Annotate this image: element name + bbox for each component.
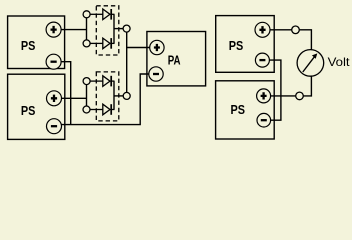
diode D1 (block 1 top) xyxy=(90,9,115,20)
svg-text:PS: PS xyxy=(231,102,246,117)
meter needle arrowhead xyxy=(312,53,317,58)
terminal PS4 + xyxy=(257,89,271,103)
svg-text:PS: PS xyxy=(21,103,36,118)
terminal PS2 - xyxy=(47,119,62,134)
power supply PS2 box xyxy=(8,74,65,139)
wire cathode join block 2 xyxy=(113,81,115,110)
terminal PA + xyxy=(150,40,164,54)
power supply PS3 box xyxy=(216,16,275,73)
wire OR bus vertical between output nodes xyxy=(126,29,128,96)
diode D2 (block 1 bottom) xyxy=(90,38,115,49)
node: block 1 output xyxy=(123,25,130,32)
wire cathode join block 1 xyxy=(113,14,115,43)
wire PS4+ to voltmeter bottom xyxy=(271,76,312,96)
power supply PS4 box xyxy=(216,81,275,139)
node: block 1 input B xyxy=(83,40,90,47)
node: block 2 output xyxy=(123,92,130,99)
svg-text:PA: PA xyxy=(168,53,181,68)
wire block 2 output to OR node xyxy=(114,95,127,97)
wire input chain block 1 (vertical between input nodes) xyxy=(86,14,88,43)
wire PS1- down to negative bus xyxy=(61,62,71,125)
wire PS3- to PS4- (series bus crossing PS4+ wire) xyxy=(269,60,281,120)
wire input chain block 2 xyxy=(86,81,88,110)
wire block 1 output to OR node xyxy=(114,28,127,30)
amplifier PA box xyxy=(147,32,206,86)
wire PS3+ to voltmeter top xyxy=(270,30,311,50)
node: test point top (PS3+) xyxy=(292,26,300,34)
diode D4 (block 2 bottom) xyxy=(90,104,115,115)
meter needle xyxy=(303,57,315,72)
terminal PS3 + xyxy=(255,22,270,37)
power supply PS1 box xyxy=(8,16,65,69)
svg-text:PS: PS xyxy=(229,38,244,53)
svg-text:Volt: Volt xyxy=(328,55,351,69)
terminal PS4 - xyxy=(257,113,271,127)
node: block 2 input B xyxy=(83,106,90,113)
diode D3 (block 2 top) xyxy=(90,76,115,87)
wire OR bus to PA+ xyxy=(127,47,150,49)
node: block 2 input A xyxy=(83,78,90,85)
svg-text:PS: PS xyxy=(21,38,36,53)
node: block 1 input A xyxy=(83,11,90,18)
wire PS1+ to diode block 1 input chain xyxy=(61,29,86,31)
terminal PS3 - xyxy=(255,53,269,67)
wire PS2+ to diode block 2 input chain xyxy=(62,97,87,99)
terminal PS1 + xyxy=(46,22,61,37)
wire negative bus from PS2- to PA- xyxy=(61,74,149,125)
voltmeter body xyxy=(297,50,324,77)
terminal PA - xyxy=(149,67,163,81)
terminal PS1 - xyxy=(46,54,61,69)
dashed diode module box 2 xyxy=(96,72,119,121)
terminal PS2 + xyxy=(47,91,62,106)
dashed diode module box 1 xyxy=(96,6,119,55)
node: test point bottom (PS4+) xyxy=(296,92,304,100)
